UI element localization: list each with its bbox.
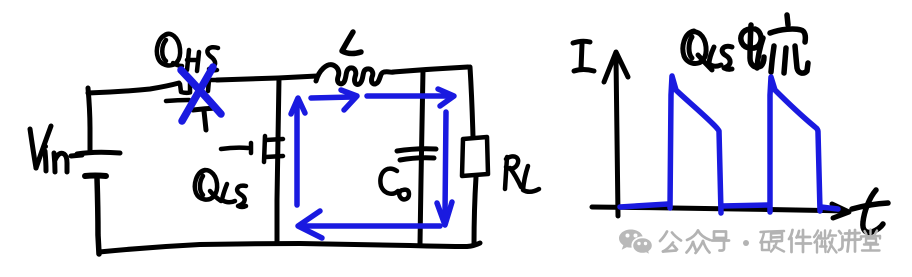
- transistor Q_HS (high-side switch symbol): [166, 80, 219, 101]
- label L: [342, 32, 361, 54]
- label t: [852, 190, 888, 233]
- watermark text 众: [687, 231, 711, 254]
- waveform baseline segment 3: [821, 207, 838, 209]
- blue X over Q_HS (switch off): [181, 67, 221, 121]
- watermark text 号: [712, 232, 729, 251]
- label Q_LS (waveform label): [683, 31, 732, 70]
- watermark logo (chat bubbles): [619, 230, 653, 256]
- capacitor Co plates: [397, 149, 436, 160]
- wire below battery to bottom rail: [97, 178, 99, 254]
- waveform baseline segment 1: [620, 204, 668, 207]
- blue current loop right arrow 2: [367, 89, 454, 106]
- wire top middle from Q_HS to inductor: [217, 76, 317, 80]
- axis t (horizontal): [592, 204, 849, 218]
- label Q_HS: [157, 34, 218, 71]
- watermark text 堂: [861, 230, 880, 251]
- label 电 (waveform label): [741, 25, 764, 67]
- blue current loop left arrow: [298, 211, 440, 238]
- watermark text 微: [814, 231, 837, 253]
- waveform pulse 1: [670, 76, 721, 213]
- label T (gate tick below Q_HS): [193, 108, 217, 130]
- watermark text 讲: [839, 230, 860, 252]
- inductor L: [316, 65, 394, 85]
- label RL: [505, 156, 539, 191]
- wire left side: [88, 88, 90, 150]
- watermark text 件: [789, 230, 811, 252]
- resistor RL: [462, 137, 488, 176]
- label Q_LS: [195, 170, 246, 207]
- label 流 (waveform label): [757, 15, 808, 73]
- transistor Q_LS (low-side MOSFET symbol): [221, 136, 283, 162]
- watermark text 公: [660, 232, 681, 252]
- axis I (vertical): [604, 52, 628, 216]
- wire top-left from corner to Q_HS: [88, 83, 179, 93]
- wire bottom rail: [99, 243, 480, 252]
- waveform baseline segment 2: [722, 205, 768, 206]
- blue current loop right arrow 1: [311, 90, 357, 110]
- label I: [573, 41, 594, 71]
- label Vin: [30, 126, 82, 172]
- watermark text 硬: [761, 231, 785, 252]
- wire right side upper: [470, 67, 473, 137]
- wire top right from inductor to corner: [393, 67, 468, 72]
- blue current loop up arrow: [291, 98, 305, 205]
- blue current loop down arrow: [437, 112, 452, 225]
- watermark dot separator: [743, 240, 749, 246]
- label Co: [380, 169, 409, 200]
- waveform pulse 2: [770, 77, 820, 212]
- voltage source Vin: [77, 152, 120, 176]
- capacitor Co wire: [420, 70, 423, 244]
- wire middle branch (switch node to ground): [277, 78, 279, 243]
- wire right side lower: [474, 177, 476, 245]
